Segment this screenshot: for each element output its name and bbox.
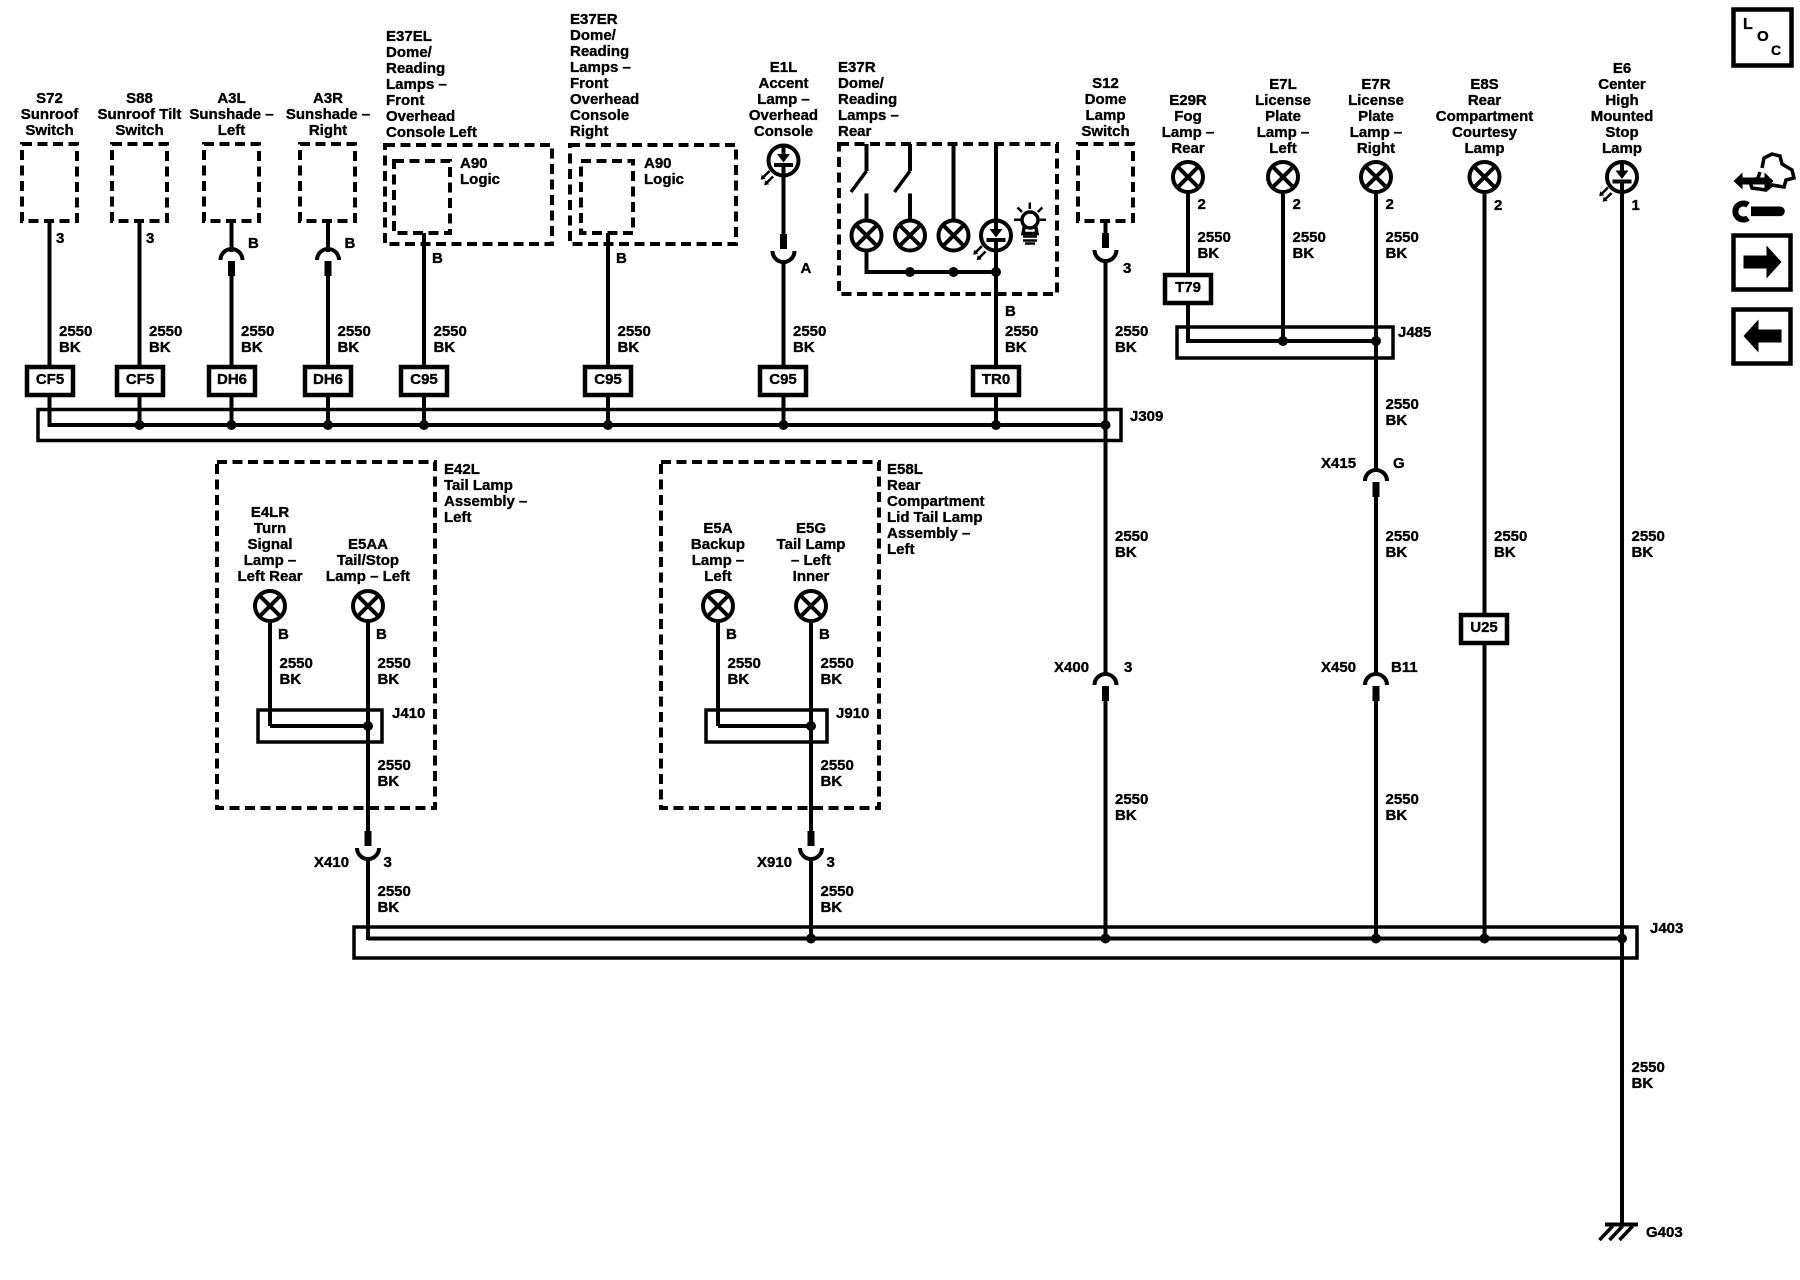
label E5G Tail Lamp Inner xyxy=(721,521,901,585)
junction dot lamp2 xyxy=(905,267,915,277)
inline connector at S12 pin 3 xyxy=(1095,233,1117,261)
lamp E5AA Tail/Stop Lamp Left xyxy=(353,591,383,621)
connector DH6 (A3R) xyxy=(305,367,351,395)
lamp 1 in E37R xyxy=(852,221,882,251)
wire label 2550 BK (E37ER) xyxy=(618,324,651,356)
pin B E37EL xyxy=(432,251,443,267)
junction dot J309/E1L xyxy=(779,420,789,430)
switch inside E37R (lamp 2) xyxy=(895,144,911,222)
pin B E5AA xyxy=(376,627,387,643)
wire S88 pin 3 to CF5 xyxy=(138,221,142,368)
wire label 2550 BK (E7R below X450) xyxy=(1386,792,1419,824)
wire to DH6 xyxy=(326,276,330,368)
wire inside J485 xyxy=(1188,325,1376,341)
wire label 2550 BK (S12 below X400) xyxy=(1115,792,1148,824)
node X910 xyxy=(757,855,792,871)
label E5AA Tail/Stop Lamp xyxy=(278,537,458,585)
junction dot J309/A3L xyxy=(227,420,237,430)
label A3L Sunshade Left xyxy=(142,91,322,139)
wire label 2550 BK (E6) xyxy=(1632,529,1665,561)
pin B E37R xyxy=(1005,304,1016,320)
pin 3 S12 xyxy=(1123,261,1131,277)
wire label 2550 BK (S88) xyxy=(149,324,182,356)
wire inside J410 xyxy=(270,724,368,728)
splice J910 box xyxy=(706,710,827,742)
lamp E5G Tail Lamp Left Inner xyxy=(796,591,826,621)
wire label 2550 BK (E6 to G403) xyxy=(1632,1060,1665,1092)
connector CF5 box label xyxy=(27,372,73,388)
label E8S Rear Compartment Courtesy Lamp xyxy=(1395,77,1575,157)
wire E7R pin 2 through J485 xyxy=(1374,192,1378,472)
junction dot J309/S12 xyxy=(1101,420,1111,430)
connector T79 box label xyxy=(1165,280,1211,296)
wire DH6 to J309 xyxy=(326,395,330,427)
wire label 2550 BK (S12) xyxy=(1115,324,1148,356)
lamp E1L Accent Lamp Overhead Console (LED symbol) xyxy=(761,146,799,186)
component E37R Dome/Reading Lamps Rear (dashed box) xyxy=(839,144,1057,294)
connector CF5 (S72) xyxy=(27,367,73,395)
component E42L Tail Lamp Assembly Left (dashed box) xyxy=(217,462,435,808)
component E37EL Dome/Reading Lamps Front Overhead Console Left (outer dashed box) xyxy=(385,145,552,244)
wire lamp 4 to box top xyxy=(994,144,998,222)
wire E29R pin 2 to T79 xyxy=(1186,192,1190,276)
back arrow box icon xyxy=(1734,310,1791,364)
splice pack J309 box xyxy=(38,410,1121,441)
wire X400 to J403 xyxy=(1104,701,1108,940)
wire label 2550 BK (E29R) xyxy=(1198,230,1231,262)
splice pack J403 box xyxy=(354,927,1637,958)
wire X410 to J403 xyxy=(366,857,370,940)
inline connector X415 xyxy=(1365,470,1387,497)
wire label 2550 BK (E37R) xyxy=(1005,324,1038,356)
wire label 2550 BK (E37EL) xyxy=(434,324,467,356)
pin 3 X400 xyxy=(1124,660,1132,676)
junction dot J403/E6 xyxy=(1617,934,1627,944)
label E7L License Plate Lamp Left xyxy=(1193,77,1373,157)
junction dot J309/E37ER xyxy=(603,420,613,430)
connector C95 (E37ER) xyxy=(585,367,631,395)
lamp E8S Rear Compartment Courtesy Lamp xyxy=(1470,162,1500,192)
node J410 xyxy=(392,706,425,722)
wire S12 J309 to X400 xyxy=(1104,425,1108,676)
component E37ER Dome/Reading Lamps Front Overhead Console Right (outer dashed box) xyxy=(570,145,736,244)
component S88 Sunroof Tilt Switch (dashed box) xyxy=(112,144,167,221)
wire label 2550 BK (X410 out) xyxy=(378,884,411,916)
lamp 4 in E37R (LED symbol) xyxy=(973,221,1011,261)
wire E37R pin B to TR0 xyxy=(994,250,998,369)
junction dot lamp3 xyxy=(949,267,959,277)
wire E5A pin B to J910 xyxy=(716,620,720,726)
LOC icon letters xyxy=(1743,17,1753,33)
lamp E4LR Turn Signal Lamp Left Rear xyxy=(255,591,285,621)
pin 3 X410 xyxy=(384,855,392,871)
component A3L Sunshade Left (dashed box) xyxy=(204,144,259,221)
label E42L Tail Lamp Assembly xyxy=(444,462,527,526)
connector C95 box label xyxy=(760,372,806,388)
connector C95 (E1L) xyxy=(760,367,806,395)
wire TR0 to J309 xyxy=(994,395,998,427)
node X450 xyxy=(1321,660,1356,676)
label E29R Fog Lamp xyxy=(1098,93,1278,157)
pin 2 E8S xyxy=(1494,198,1502,214)
bulb icon beside lamp 4 xyxy=(1014,203,1046,244)
pin 3 X910 xyxy=(827,855,835,871)
wire A3L pin B to inline connector xyxy=(230,221,234,252)
wire label 2550 BK (A3R) xyxy=(338,324,371,356)
connector U25 box label xyxy=(1461,620,1507,636)
wire E37ER pin B to C95 xyxy=(606,233,610,368)
junction dot J403/X400 xyxy=(1101,934,1111,944)
junction dot J485/E7L xyxy=(1278,336,1288,346)
label S88 Sunroof Tilt Switch xyxy=(50,91,230,139)
inline connector at A3R pin B xyxy=(317,249,339,276)
lamp E7L License Plate Lamp Left xyxy=(1268,162,1298,192)
wire DH6 to J309 xyxy=(230,395,234,427)
switch inside E37R (lamp 1) xyxy=(851,144,867,222)
wire to C95 xyxy=(782,260,786,368)
label S72 Sunroof Switch xyxy=(0,91,140,139)
inline connector at E1L pin A xyxy=(773,234,795,262)
connector C95 (E37EL) xyxy=(401,367,447,395)
component E58L Rear Compartment Lid Tail Lamp Assembly Left (dashed box) xyxy=(661,462,879,808)
label E7R License Plate Lamp Right xyxy=(1286,77,1466,157)
node J910 xyxy=(836,706,869,722)
wire C95 to J309 xyxy=(422,395,426,427)
label E4LR Turn Signal Lamp xyxy=(180,505,360,585)
node G403 xyxy=(1646,1225,1683,1241)
wire label 2550 BK (E7R below J485) xyxy=(1386,397,1419,429)
wire label 2550 BK (E4LR) xyxy=(280,656,313,688)
wire E1L to inline connector A xyxy=(782,175,786,235)
wire S12 to J309 xyxy=(1104,259,1108,427)
wire J410 to X410 xyxy=(366,742,370,832)
connector TR0 xyxy=(973,367,1019,395)
lamp E7R License Plate Lamp Right xyxy=(1361,162,1391,192)
connector T79 xyxy=(1165,275,1211,303)
LOC reference box icon xyxy=(1734,10,1792,66)
splice pack J485 box xyxy=(1177,327,1393,358)
wire U25 to J403 xyxy=(1483,643,1487,940)
wire label 2550 BK (S12 below J309) xyxy=(1115,529,1148,561)
wire label 2550 BK (J910 out) xyxy=(821,758,854,790)
wire E8S pin 2 to U25 xyxy=(1483,192,1487,616)
wire to DH6 xyxy=(230,276,234,368)
pin B A3R xyxy=(345,236,356,252)
wire label 2550 BK (X910 out) xyxy=(821,884,854,916)
label E37ER xyxy=(570,12,639,140)
wire S12 pin 3 xyxy=(1104,221,1108,234)
node X410 xyxy=(314,855,349,871)
wire label 2550 BK (J410 out) xyxy=(378,758,411,790)
inline connector X400 xyxy=(1095,674,1117,701)
ground G403 symbol xyxy=(1600,1225,1639,1241)
node J309 xyxy=(1130,409,1163,425)
pin G X415 xyxy=(1393,456,1405,472)
wire inside J309 xyxy=(50,423,1106,427)
label E58L assembly xyxy=(887,462,985,558)
label A90 Logic (E37EL) xyxy=(460,156,500,188)
wire E7L pin 2 to J485 xyxy=(1281,192,1285,341)
node J485 xyxy=(1398,325,1431,341)
connector DH6 (A3L) xyxy=(209,367,255,395)
connector U25 xyxy=(1461,615,1507,643)
junction dot J403/U25 xyxy=(1480,934,1490,944)
wire E4LR pin B to J410 xyxy=(268,620,272,726)
lamp E29R Fog Lamp Rear xyxy=(1173,162,1203,192)
pin 1 E6 xyxy=(1632,198,1640,214)
lamp 2 in E37R xyxy=(895,221,925,251)
connector DH6 box label xyxy=(209,372,255,388)
pin 2 E7R xyxy=(1386,197,1394,213)
vehicle/service icon xyxy=(1734,154,1795,220)
junction dot J910 xyxy=(806,721,816,731)
node J403 xyxy=(1650,921,1683,937)
wire label 2550 BK (E7L) xyxy=(1293,230,1326,262)
wire label 2550 BK (E5A) xyxy=(728,656,761,688)
junction dot J403/X450 xyxy=(1371,934,1381,944)
pin 3 S88 xyxy=(146,231,154,247)
connector CF5 (S88) xyxy=(117,367,163,395)
pin B E4LR xyxy=(278,627,289,643)
wire T79 to J485 xyxy=(1186,303,1190,343)
splice J410 box xyxy=(258,710,382,742)
wire E37EL pin B to C95 xyxy=(422,233,426,368)
connector C95 box label xyxy=(401,372,447,388)
pin B E5A xyxy=(726,627,737,643)
lamp E6 Center High Mounted Stop Lamp (LED symbol) xyxy=(1599,162,1637,202)
label E5A Backup Lamp xyxy=(628,521,808,585)
wire S72 pin 3 to CF5 xyxy=(48,221,52,368)
wire label 2550 BK (E5AA) xyxy=(378,656,411,688)
label A3R Sunshade Right xyxy=(238,91,418,139)
wire X450 to J403 xyxy=(1374,701,1378,940)
pin B E5G xyxy=(819,627,830,643)
A90 Logic module box inside E37EL xyxy=(394,161,450,233)
wire label 2550 BK (E7R below X415) xyxy=(1386,529,1419,561)
lamp 3 in E37R xyxy=(939,221,969,251)
pin B A3L xyxy=(248,236,259,252)
junction dot J309/TR0 xyxy=(991,420,1001,430)
wire J910 to X910 xyxy=(809,742,813,832)
label E6 CHMSL xyxy=(1532,61,1712,157)
connector TR0 box label xyxy=(973,372,1019,388)
wire inside J403 xyxy=(368,937,1622,941)
wire label 2550 BK (E8S) xyxy=(1494,529,1527,561)
pin B E37ER xyxy=(616,251,627,267)
wire X910 to J403 xyxy=(809,857,813,940)
pin 2 E7L xyxy=(1293,197,1301,213)
pin 2 E29R xyxy=(1198,197,1206,213)
wire lamp 3 to box top xyxy=(952,144,956,222)
wire C95 to J309 xyxy=(606,395,610,427)
node X415 xyxy=(1321,456,1356,472)
connector CF5 box label xyxy=(117,372,163,388)
inline connector X410 xyxy=(357,831,379,859)
wire CF5 to J309 xyxy=(48,395,52,427)
junction dot lamp4 xyxy=(991,267,1001,277)
wire CF5 to J309 xyxy=(138,395,142,427)
node X400 xyxy=(1054,660,1089,676)
forward arrow box icon xyxy=(1734,236,1791,290)
A90 Logic module box inside E37ER xyxy=(581,161,633,233)
wire X415 to X450 xyxy=(1374,497,1378,676)
wire E5G pin B through J910 xyxy=(809,620,813,742)
junction dot J485/E7R xyxy=(1371,336,1381,346)
junction dot J410 xyxy=(363,721,373,731)
label E37R xyxy=(838,60,899,140)
wire label 2550 BK (E5G) xyxy=(821,656,854,688)
pin A E1L xyxy=(801,261,812,277)
wire E5AA pin B through J410 xyxy=(366,620,370,742)
wire A3R pin B to inline connector xyxy=(326,221,330,252)
lamp E5A Backup Lamp Left xyxy=(703,591,733,621)
wire C95 to J309 xyxy=(782,395,786,427)
wire E6 pin 1 through J403 to G403 xyxy=(1620,192,1624,1224)
label E37EL xyxy=(386,29,477,141)
label S12 Dome Lamp Switch xyxy=(1016,76,1196,140)
pin B11 X450 xyxy=(1391,660,1418,676)
inline connector at A3L pin B xyxy=(221,249,243,276)
component A3R Sunshade Right (dashed box) xyxy=(300,144,355,221)
connector DH6 box label xyxy=(305,372,351,388)
wire label 2550 BK (A3L) xyxy=(241,324,274,356)
component S12 Dome Lamp Switch (dashed box) xyxy=(1078,144,1133,221)
wire label 2550 BK (E1L) xyxy=(793,324,826,356)
wire bus joining E37R lamps xyxy=(867,250,997,273)
wire label 2550 BK (S72) xyxy=(59,324,92,356)
label E1L Accent Lamp xyxy=(694,60,874,140)
connector C95 box label xyxy=(585,372,631,388)
junction dot J309/S88 xyxy=(135,420,145,430)
inline connector X450 xyxy=(1365,674,1387,701)
component S72 Sunroof Switch (dashed box) xyxy=(22,144,77,221)
wire inside J910 xyxy=(718,724,811,728)
junction dot J309/E37EL xyxy=(419,420,429,430)
pin 3 S72 xyxy=(56,231,64,247)
label A90 Logic (E37ER) xyxy=(644,156,684,188)
wire label 2550 BK (E7R) xyxy=(1386,230,1419,262)
inline connector X910 xyxy=(800,831,822,859)
junction dot J403/X910 xyxy=(806,934,816,944)
junction dot J309/A3R xyxy=(323,420,333,430)
